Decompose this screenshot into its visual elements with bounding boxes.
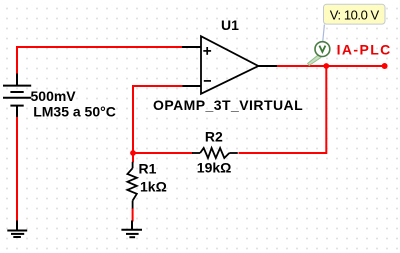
wire V1 plus to U1 noninverting input (17, 47, 183, 75)
resistor R2 (192, 148, 238, 158)
svg-text:19kΩ: 19kΩ (197, 160, 232, 176)
ground under V1 (7, 221, 27, 238)
wire junction to R2 left (133, 152, 193, 154)
svg-text:OPAMP_3T_VIRTUAL: OPAMP_3T_VIRTUAL (153, 97, 303, 113)
node endpoint IA-PLC (382, 63, 388, 69)
svg-text:IA-PLC: IA-PLC (337, 42, 392, 58)
svg-text:500mV: 500mV (31, 88, 77, 104)
wire junction to U1 inverting input (133, 86, 183, 153)
ground under R1 (121, 221, 142, 238)
wire U1 output node (277, 65, 385, 67)
resistor R1 (127, 162, 136, 209)
voltage probe V magnifier (308, 42, 330, 66)
svg-text:R2: R2 (205, 129, 223, 145)
wire junction to R1 top (132, 153, 134, 162)
wire feedback from output node down to R2 (239, 66, 327, 153)
svg-text:R1: R1 (139, 161, 157, 177)
svg-text:V: 10.0 V: V: 10.0 V (330, 7, 380, 22)
svg-text:U1: U1 (221, 17, 239, 33)
junction output node (323, 63, 329, 69)
wire R1 bottom to ground (132, 209, 134, 222)
svg-text:1kΩ: 1kΩ (140, 179, 167, 195)
wire V1 minus to ground (16, 116, 18, 222)
voltage source V1 battery (3, 74, 31, 118)
probe annotation box V: 10.0 V (324, 4, 386, 24)
op-amp U1 (182, 36, 278, 94)
probe leader line (323, 25, 325, 44)
junction R1 R2 node (130, 150, 136, 156)
svg-text:LM35 a 50°C: LM35 a 50°C (33, 104, 116, 120)
